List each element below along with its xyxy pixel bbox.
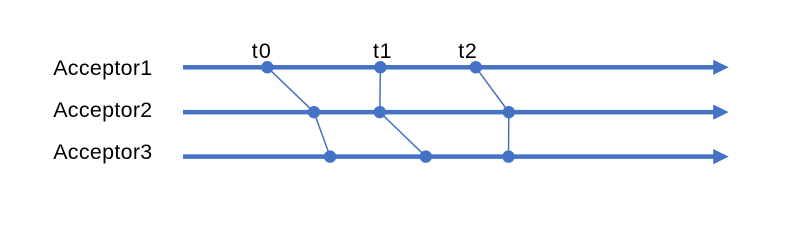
- connector t0 Acceptor1 to Acceptor2: [267, 67, 314, 112]
- connector Acceptor2 to Acceptor3 (second): [380, 112, 426, 156]
- timeline arrow Acceptor1: [183, 60, 729, 75]
- event dot 2 on Acceptor2: [374, 106, 386, 118]
- timeline arrow Acceptor2: [183, 105, 729, 120]
- event dot t0 on Acceptor1: [261, 61, 273, 73]
- connector t1 Acceptor1 to Acceptor2: [379, 67, 382, 112]
- event dot 3 on Acceptor2: [503, 106, 515, 118]
- svg-text:Acceptor3: Acceptor3: [53, 140, 152, 164]
- svg-text:t1: t1: [373, 39, 392, 63]
- event dot 1 on Acceptor3: [324, 150, 336, 162]
- svg-text:t0: t0: [252, 39, 271, 63]
- event dot t1 on Acceptor1: [374, 61, 386, 73]
- svg-text:Acceptor1: Acceptor1: [53, 56, 152, 80]
- svg-text:t2: t2: [458, 39, 477, 63]
- event dot 2 on Acceptor3: [420, 150, 432, 162]
- event dot t2 on Acceptor1: [470, 61, 482, 73]
- event dot 3 on Acceptor3: [502, 150, 514, 162]
- connector Acceptor2 to Acceptor3 (third): [508, 112, 510, 156]
- connector Acceptor2 to Acceptor3 (first): [314, 112, 330, 156]
- timeline arrow Acceptor3: [183, 149, 729, 164]
- svg-text:Acceptor2: Acceptor2: [53, 98, 152, 122]
- event dot 1 on Acceptor2: [308, 106, 320, 118]
- connector t2 Acceptor1 to Acceptor2: [476, 67, 509, 112]
